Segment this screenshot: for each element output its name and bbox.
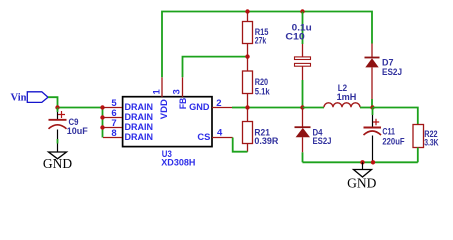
wire output node to R22 top [373,108,418,125]
junction input node (Vin/C9) [55,105,59,109]
ground GND right symbol [354,162,372,177]
junction top rail / C10 [300,9,304,13]
capacitor C10 symbol [295,12,311,108]
wire FB rail (pin3 up to R15/R20 node) [183,57,248,78]
svg-text:0.39R: 0.39R [254,136,279,146]
svg-text:3: 3 [172,89,183,94]
wire CS pin4 to R21 bottom [233,138,248,152]
U3 pin 1 stub [161,77,163,97]
svg-text:ES2J: ES2J [313,136,332,146]
wire Vin port to input node [48,97,58,107]
junction C10/D4/rail node [300,105,304,109]
svg-text:XD308H: XD308H [161,158,195,169]
svg-text:2: 2 [216,98,221,109]
ground GND left symbol [49,152,67,159]
wire VDD rail (pin1 up, top rail to D7) [162,12,372,78]
svg-text:3.3K: 3.3K [424,138,439,148]
junction FB node (R15/R20) [245,54,249,58]
junction R20/R21/rail node [245,105,249,109]
svg-text:27k: 27k [255,35,267,45]
svg-text:FB: FB [178,98,189,110]
svg-text:DRAIN: DRAIN [125,132,154,143]
svg-text:CS: CS [197,132,210,143]
wire input node to pin5 bus [58,107,103,109]
inductor L2 [303,103,373,108]
capacitor C9 symbol [49,108,67,153]
svg-text:10uF: 10uF [67,126,89,136]
svg-text:Vin: Vin [11,93,27,104]
svg-text:C10: C10 [285,32,305,42]
wire GND net: R21 node to D4 node [248,107,303,109]
wire GND net: pin2 to R20/R21 node [232,107,248,109]
U3 pin 2 stub [212,107,232,109]
resistor R15 [243,12,253,57]
svg-text:GND: GND [189,102,210,113]
diode D7 [365,44,380,108]
svg-text:C11: C11 [382,127,395,137]
IC U3 body [123,97,212,147]
junction pin 6 [100,115,104,119]
capacitor C11 symbol [364,108,382,163]
junction pin 7 [100,125,104,129]
svg-text:GND: GND [43,156,72,171]
svg-text:GND: GND [347,176,376,191]
svg-text:5.1k: 5.1k [255,87,270,97]
diode D4 [295,108,311,163]
resistor R22 [413,125,424,163]
junction pin 5 [100,105,104,109]
svg-text:D7: D7 [382,58,394,68]
wire drain bus vertical [102,108,104,138]
junction bottom rail / GND symbol [360,160,364,164]
U3 pin 7 stub [103,127,122,129]
U3 pin 8 stub [103,137,122,139]
resistor R21 [243,108,253,152]
svg-text:4: 4 [217,127,223,138]
U3 pin 6 stub [103,117,122,119]
wire bottom GND rail [303,161,418,163]
svg-text:VDD: VDD [159,99,170,119]
svg-text:220uF: 220uF [382,137,405,147]
svg-text:R20: R20 [255,77,268,87]
resistor R20 [243,57,253,108]
svg-text:8: 8 [111,128,116,139]
port Vin symbol [27,92,48,103]
U3 pin 5 stub [103,107,122,109]
U3 pin 3 stub [182,77,184,97]
junction output node (D7/L2/C11) [370,105,374,109]
junction bottom rail / C11 [371,160,375,164]
junction top rail / R15 [245,9,249,13]
svg-text:ES2J: ES2J [382,67,402,77]
U3 pin 4 stub [212,137,233,139]
svg-text:1: 1 [151,89,162,95]
svg-text:1mH: 1mH [337,92,357,102]
